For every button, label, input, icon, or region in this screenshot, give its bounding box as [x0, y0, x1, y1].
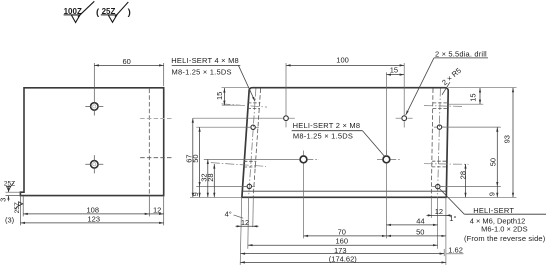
hidden line: drill row (gray dashed horizontal) — [140, 118, 171, 120]
M6 reverse hole T4 (right track bottom) — [436, 184, 440, 188]
ext line 108/12 middle (under dashed) — [148, 196, 150, 217]
svg-text:108: 108 — [87, 205, 100, 214]
note HELI-SERT M6 shelf — [464, 213, 546, 215]
surface mark 25Z upper: triangle — [7, 183, 14, 191]
leader 2xR5 — [442, 82, 450, 95]
main outline (4-deg left edge, 1-deg right edge, R5 top corners) — [242, 88, 448, 198]
dim line 50 bottom — [386, 235, 446, 237]
svg-text:44: 44 — [416, 216, 424, 225]
dim line 44 — [386, 224, 437, 226]
dim line 15 top — [386, 74, 404, 76]
crosshair M1 right (dash-dot) — [307, 158, 319, 160]
ext M1 vertical below to dim rows — [303, 163, 305, 238]
tapped hole SV1 inner — [93, 105, 96, 108]
right hidden depth line (dashed) — [431, 89, 433, 197]
svg-text:15: 15 — [390, 66, 398, 75]
crosshair M2 left — [377, 158, 383, 160]
svg-text:): ) — [128, 7, 131, 18]
M6 reverse hole T1 (left track top) — [251, 125, 255, 129]
note HELI-SERT 4xM8 underline — [172, 64, 241, 66]
symbol 100Z triangle — [71, 15, 80, 23]
SECTION: dimensions — [193, 65, 513, 262]
side view outline with bottom-left notch — [20, 88, 163, 196]
svg-text:M8-1.25 × 1.5DS: M8-1.25 × 1.5DS — [293, 131, 353, 140]
left hole-track centerline (dash-dot) — [249, 89, 256, 198]
dim line 12 (side view) — [149, 213, 163, 215]
arrows for 3-dim — [7, 188, 9, 199]
svg-text:100: 100 — [336, 56, 349, 65]
symbol 100Z slash — [78, 1, 94, 16]
crosshair T4 — [432, 186, 443, 188]
note HELI-SERT 2xM8 underline — [292, 130, 363, 132]
svg-text:12: 12 — [435, 207, 443, 216]
dim line 28 left — [213, 164, 215, 197]
SECTION: left side view — [20, 88, 171, 196]
dim line 32 left — [207, 159, 209, 197]
ext line 60-dim right (top-right corner up) — [163, 63, 165, 86]
ref line 50-top right (T3 to right stack) — [442, 126, 501, 128]
ext bottom edge right — [446, 196, 516, 198]
svg-text:15: 15 — [468, 93, 477, 101]
svg-text:123: 123 — [88, 214, 101, 223]
ext 173 right end (1.62 gap) — [443, 249, 445, 256]
ext left track extended below (L2) — [247, 197, 250, 248]
symbol 25Z slash — [115, 2, 128, 17]
M8 side-hole row2 right hidden stubs — [432, 161, 447, 167]
hidden line: 12 offset face (dashed vertical) — [148, 89, 150, 195]
dim line 12 bottom-left — [236, 225, 259, 227]
dim line 123 — [20, 222, 163, 224]
svg-text:60: 60 — [123, 57, 131, 66]
svg-text:2 × 5.5dia. drill: 2 × 5.5dia. drill — [435, 49, 487, 58]
M8 side-hole row1 right hidden stubs — [433, 103, 447, 109]
crosshair T3 — [434, 126, 445, 128]
tapped hole SV1 crosshair — [85, 106, 103, 115]
ext left edge extended below (L1) — [240, 197, 242, 265]
SECTION: main front view — [211, 88, 469, 198]
dim line 15 right vertical — [479, 88, 481, 104]
crosshair T1 — [248, 126, 259, 128]
svg-text:9: 9 — [487, 192, 496, 196]
leader 2x5.5 drill — [406, 58, 434, 115]
svg-text:M8-1.25 × 1.5DS: M8-1.25 × 1.5DS — [172, 67, 232, 76]
SECTION: surface finish symbols top-left — [64, 1, 131, 22]
dim line 50/9 left — [199, 127, 201, 186]
svg-text:(From the reverse side): (From the reverse side) — [464, 234, 546, 243]
dim line 173 — [241, 253, 445, 255]
svg-text:50: 50 — [416, 227, 424, 236]
symbol 100Z bar — [64, 14, 80, 16]
dim line 12 bottom-right — [427, 214, 453, 216]
crosshair T2 — [244, 185, 255, 187]
ext line 108-dim left — [22, 197, 24, 217]
ext right track extended below — [437, 197, 439, 248]
ext 15-dim top (through part to M2) — [385, 72, 387, 156]
ext bottom edge left — [190, 196, 242, 198]
svg-text:HELI-SERT 2 × M8: HELI-SERT 2 × M8 — [293, 121, 361, 130]
surface mark 25Z lower: triangle — [15, 202, 23, 209]
svg-text:160: 160 — [336, 236, 349, 245]
svg-text:HELI-SERT 4 × M8: HELI-SERT 4 × M8 — [171, 56, 239, 65]
M6 reverse hole T2 (left track bottom) — [247, 184, 251, 188]
crosshair/ref mid row through M1 to left stack (32 ref) — [204, 158, 300, 160]
dim line 9 right segment — [496, 187, 498, 198]
leader bottom-right M6 — [440, 189, 465, 215]
ref 15 left bottom — [222, 104, 241, 106]
tapped hole SV1 circle — [91, 103, 99, 111]
M8 side-hole row1 left centerline — [222, 104, 268, 107]
svg-text:70: 70 — [338, 227, 346, 236]
M8 side-hole row1 right centerline — [424, 105, 462, 108]
svg-text:15: 15 — [215, 92, 224, 100]
dim line (174.62) — [240, 261, 446, 263]
ext 100-dim right to D2 — [403, 63, 405, 128]
M6 reverse hole T3 (right track top) — [437, 125, 441, 129]
ext left hidden line extended below (L3) — [252, 197, 255, 227]
arrows 12 bottom-left (outside) — [237, 225, 258, 227]
svg-text:25Z: 25Z — [14, 202, 21, 213]
dim line 60 — [94, 64, 163, 66]
svg-text:1°: 1° — [449, 214, 456, 223]
mid M8 tapped hole M2 — [383, 156, 390, 163]
dim line 70 — [304, 235, 387, 237]
drill hole D2 — [402, 116, 407, 121]
svg-text:12: 12 — [241, 218, 249, 227]
dim line 93 right — [512, 88, 514, 198]
ext line 60-dim left (hole SV1 up) — [93, 63, 95, 103]
ext M2 vertical below to dim rows — [385, 163, 387, 238]
bottom step line — [242, 190, 446, 192]
M8 side-hole row2 left centerline — [211, 163, 266, 167]
dim line 108 — [23, 213, 149, 215]
symbol 25Z bar — [101, 14, 117, 16]
ref line 50-top left (T1 to left stack) — [196, 126, 251, 128]
dim line 50/9 right — [496, 127, 498, 187]
note 2x5.5 drill underline — [434, 57, 488, 59]
svg-text:4°: 4° — [225, 210, 232, 219]
leader HELI-SERT 4xM8 — [239, 66, 256, 102]
svg-text:3: 3 — [0, 198, 8, 202]
mid M8 tapped hole M1 — [300, 156, 307, 163]
dim line 67 left — [192, 118, 194, 197]
right hole-track centerline (dash-dot) — [438, 89, 441, 198]
dim line 15 left vertical — [223, 88, 225, 105]
svg-text:M6-1.0 × 2DS: M6-1.0 × 2DS — [481, 225, 527, 234]
ext top edge left (15 ref) — [222, 87, 250, 89]
left hidden depth line (dashed) — [253, 89, 260, 197]
ext line 123 left — [19, 197, 21, 226]
svg-text:50: 50 — [489, 158, 498, 166]
ext right hidden line extended below — [430, 197, 432, 218]
arrows 12 bottom-right (outside) — [428, 214, 450, 216]
svg-text:1.62: 1.62 — [448, 246, 463, 255]
svg-text:93: 93 — [503, 135, 512, 143]
tick 4 deg — [234, 215, 244, 218]
crosshair M2 vertical above — [385, 151, 387, 156]
dim line 100 — [286, 64, 404, 66]
tapped hole SV2 crosshair — [85, 155, 103, 173]
M8 side-hole row1 left hidden stubs — [248, 103, 261, 109]
ext lines 3-notch left — [6, 192, 21, 195]
svg-text:9: 9 — [191, 192, 200, 196]
svg-text:50: 50 — [191, 154, 200, 162]
svg-text:12: 12 — [153, 205, 161, 214]
dim line 28 right — [465, 164, 467, 197]
symbol 25Z triangle — [108, 15, 117, 22]
ref line 9-top left (T2 to left stack) — [196, 186, 247, 188]
svg-text:HELI-SERT: HELI-SERT — [473, 206, 514, 215]
svg-text:(174.62): (174.62) — [329, 254, 357, 263]
dim line 9 left segment — [199, 187, 201, 198]
crosshair D2 — [396, 117, 413, 119]
svg-text:(3): (3) — [5, 215, 15, 224]
M8 side-hole row2 right centerline — [424, 163, 469, 166]
svg-text:28: 28 — [206, 173, 215, 181]
ext 100-dim left through top edge to D1 — [285, 63, 287, 127]
crosshair M1 vertical above — [303, 151, 305, 156]
leader HELI-SERT 2xM8 — [363, 131, 385, 157]
ext top edge right (93 ref) — [448, 87, 516, 89]
ext 15 right bottom ref — [448, 103, 483, 105]
ref line 9-top right (T4 to right stack) — [440, 186, 501, 188]
drill hole D1 — [284, 116, 289, 121]
dim line 3 vertical with outside arrows — [8, 186, 10, 201]
ext line 12/123 right — [163, 196, 165, 226]
shelf 1.62 — [446, 253, 463, 255]
ext right edge extended below — [445, 197, 447, 265]
tapped hole SV2 circle — [91, 161, 99, 169]
crosshair M2 right (dash-dot) — [390, 158, 401, 160]
hidden line: mid M8 row (dark dashed horizontal) — [140, 157, 171, 159]
M8 side-hole row2 left hidden stubs — [244, 161, 257, 167]
tapped hole SV2 inner — [93, 163, 96, 166]
dim line 160 — [248, 244, 438, 246]
svg-text:28: 28 — [459, 171, 468, 179]
crosshair/ref drill row through D1 to left dim stack (67 ref) — [193, 117, 295, 119]
